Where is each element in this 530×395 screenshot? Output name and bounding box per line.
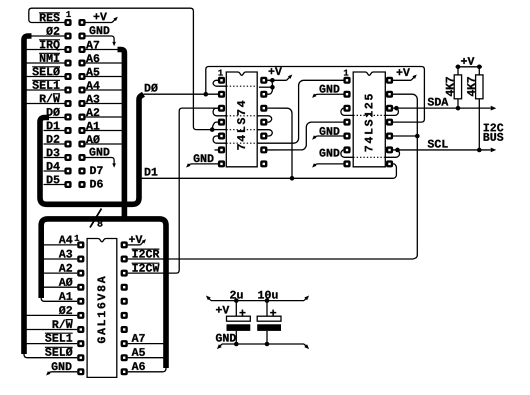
wire capacitor GND rail with arrows <box>222 343 304 345</box>
wire control bus end curve into GAL SEL0 wire <box>24 351 77 358</box>
label SEL1 with overline <box>32 81 59 89</box>
label A3 <box>86 95 99 103</box>
arrow SCL to I2C bus <box>491 148 497 153</box>
ground GND on connector <box>86 35 112 37</box>
wire D0 net: bus to U1 pin2 with junction, up and over to U2 pin4 <box>144 93 219 95</box>
wire control bus thick (phi2/IRQ/NMI/SEL/RW) left side down to GAL <box>24 36 32 354</box>
label GAL A0 <box>59 278 73 286</box>
node U1 dotted line 1 to +V vertical <box>270 85 275 90</box>
wire U2 pin1L to U1 dotted line 4 <box>257 80 343 143</box>
U2 pins <box>343 77 350 84</box>
wire R/W connector to bus <box>27 103 65 105</box>
label GAL A2 <box>59 264 72 272</box>
op U2 74LS125 buffer body <box>353 72 385 167</box>
wire R1 bottom lead to SDA <box>457 99 459 108</box>
U1 pin4R hook to dotted line <box>257 116 272 122</box>
wire GAL A5 to loop bus <box>128 357 164 359</box>
label U1 GND <box>194 154 214 162</box>
wire GAL A7 to loop bus <box>128 343 164 345</box>
ground GND3 wire to U2 pin7L <box>318 163 344 165</box>
capacitor C2 10u electrolytic <box>266 301 268 316</box>
label I2CR with overline <box>133 250 160 258</box>
wire address bus thick from A7 down to GAL loop <box>118 50 125 219</box>
node C2 top rail <box>265 298 270 303</box>
label SCL <box>428 140 448 148</box>
U2 pin3L hook to dotted line <box>341 108 353 115</box>
label A0 <box>86 135 100 143</box>
label I2C BUS <box>484 124 504 132</box>
ground GND1 wire to U2 pin2L <box>318 93 344 95</box>
wire I2CR from GAL right to 74LS125 pin2R via vertical <box>128 94 418 259</box>
label U1 pin1 number <box>218 70 222 76</box>
connector J1 pin field 2x13 <box>64 19 71 26</box>
wire +V rail for pullup resistors <box>456 66 483 68</box>
wire R2 top lead <box>478 67 480 75</box>
label GAL R/W with overline on W <box>53 320 73 329</box>
wire R2 bottom lead to SCL <box>478 99 480 150</box>
label GAL phi2 <box>59 306 72 314</box>
label A7 <box>86 41 99 49</box>
U1 internal dotted separator 1 <box>226 85 257 87</box>
U1 pin1 hook to dotted line <box>213 80 226 86</box>
wire D2 tap <box>44 143 65 145</box>
op U1 74LS74 flip-flop body <box>226 72 257 167</box>
label GAL A6 <box>132 362 145 370</box>
label GAL A5 <box>132 348 145 356</box>
wire GAL loop bus thick around GAL chip <box>41 219 166 368</box>
label D1 on bus tap wire <box>145 168 158 176</box>
label caps GND <box>216 334 236 342</box>
label GAL GND <box>52 362 72 370</box>
label D4 <box>47 162 60 170</box>
wire A5 tap <box>86 76 122 78</box>
U1 pin3 hook to dotted line <box>213 108 226 116</box>
U1 pin5 hook to dotted line <box>213 136 226 143</box>
wire A1 tap <box>86 130 122 132</box>
ground GND2 wire to U2 pin5L <box>318 135 344 137</box>
label A5 <box>86 68 99 76</box>
wire U1 pin3R (Q) down to D1 line <box>267 108 292 178</box>
wire D0 vertical over the top to 74LS125 pin4 <box>206 67 425 123</box>
label D2 <box>47 135 60 143</box>
node C2 bottom rail <box>265 342 270 347</box>
wire D3 tap <box>44 157 65 159</box>
ground GND on connector row 11 <box>86 157 112 159</box>
wire A7 connector to bus <box>86 49 120 51</box>
U2 pin6R hook to dotted line <box>385 150 399 157</box>
label R2 4K7 <box>467 77 475 96</box>
wire D1 tap from connector D1 to data bus <box>44 130 65 132</box>
power +V on connector pin 14 <box>86 22 113 24</box>
node SCL junction at pin6R hook <box>395 148 400 153</box>
label connector pin1 number <box>66 11 70 17</box>
wire GAL phi2 from control bus <box>27 314 78 316</box>
label C1 2u <box>230 291 242 299</box>
node RES junction at U1 pin4 hook <box>210 127 215 132</box>
label GAL A1 <box>59 292 72 300</box>
label R1 4K7 <box>446 77 454 96</box>
label A4 <box>86 81 100 89</box>
U1 internal dotted separator 3 <box>226 129 257 131</box>
label SDA <box>428 98 449 106</box>
label D0 <box>47 108 60 116</box>
op U3 GAL16V8A body <box>87 239 117 378</box>
wire GAL loop left end curve into A1 wire <box>41 295 77 301</box>
U1 internal dotted separator 4 <box>226 142 257 144</box>
wire data bus thick: D0 pin down, across, up to D0/D1 taps <box>40 94 144 204</box>
label A6 <box>86 54 99 62</box>
node D0 junction <box>204 92 209 97</box>
wire IRQ connector to bus <box>27 49 65 51</box>
U1 internal dotted separator 2 <box>226 115 257 117</box>
wire GAL A2 tap <box>44 272 78 274</box>
wire capacitor +V rail with arrows <box>211 300 304 302</box>
bus width marker /8 on GAL bus <box>90 209 102 228</box>
node SCL junction at R2 <box>477 148 482 153</box>
node R1 top <box>456 65 461 70</box>
wire D1 net from data bus to right <box>141 177 294 179</box>
wire A2 tap <box>86 116 122 118</box>
label D7 no connect <box>90 166 102 174</box>
U2 internal dotted separator 1 <box>353 114 385 116</box>
label NMI with overline <box>40 54 59 62</box>
U1 pins <box>218 77 225 84</box>
wire SEL0 connector to bus <box>27 76 65 78</box>
U1 pin14-pin13 tie vertical with dotted hook <box>267 80 272 94</box>
U3 pins <box>77 241 84 248</box>
label A1 <box>86 122 99 130</box>
wire GAL R/W from control bus <box>27 329 78 331</box>
wire RES net: connector pin 1 loop over top to U1 pins 4 area <box>29 8 212 129</box>
label GAL SEL1 with overline <box>45 334 72 342</box>
wire A4 tap <box>86 89 122 91</box>
label RES with overline <box>40 13 60 21</box>
wire phi2 connector <box>30 35 65 37</box>
wire GAL A0 tap <box>44 286 78 288</box>
label D6 no connect <box>90 180 103 188</box>
label U3 pin1 number <box>75 235 79 241</box>
wire GAL SEL1 from control bus <box>27 343 78 345</box>
node C1 top rail <box>234 298 239 303</box>
label GAL A3 <box>59 250 72 258</box>
label SEL0 with overline <box>32 67 59 75</box>
U2 pin3R hook to dotted line <box>385 108 398 115</box>
node C1 bottom rail <box>234 342 239 347</box>
label GAL A7 <box>132 334 145 342</box>
wire SDA from U2 pin3R to I2C bus arrow <box>393 107 491 109</box>
U2 +V power on pin 14 <box>393 79 411 81</box>
U1 pin6 stub <box>215 149 219 151</box>
wire D1 continuation to U2 pin7R hook <box>292 164 396 178</box>
resistor R1 4K7 body <box>454 75 461 99</box>
label GAL SEL0 with overline <box>45 348 72 356</box>
wire D4 tap <box>44 170 65 172</box>
wire I2CW from GAL up to U1 pin3 <box>128 108 218 273</box>
wire U1 pin6R over to U2 pin4L <box>267 122 343 150</box>
label IRQ with overline <box>40 40 60 50</box>
label A2 <box>86 108 99 116</box>
wire GAL A3 tap <box>44 258 78 260</box>
U3 +V power on pin 20 <box>128 244 141 246</box>
node R2 top <box>477 65 482 70</box>
label D5 <box>47 176 60 184</box>
wire A6 tap <box>86 62 122 64</box>
label U2 pin1 number <box>344 70 348 76</box>
label I2CW with overline <box>133 264 160 272</box>
node SDA junction at pin3R hook <box>394 106 399 111</box>
wire A0 tap <box>86 143 122 145</box>
node D1/U1 pin3R junction <box>290 176 295 181</box>
U1 pin5R hook to dotted line <box>257 130 272 136</box>
label GAL A4 <box>59 236 73 244</box>
wire U2 pin5R to I2CR vertical <box>393 135 417 137</box>
U1 +V power on pin 14 <box>267 79 286 81</box>
U2 pin6L hook to dotted line <box>341 150 353 157</box>
resistor R2 4K7 body <box>476 75 483 99</box>
label R/W with overline on W <box>40 94 60 103</box>
wire SEL1 connector to bus <box>27 89 65 91</box>
U2 internal dotted separator 2 <box>353 156 385 158</box>
wire D0 short from pin to bus corner <box>47 117 65 119</box>
wire U1 pin4 hook from RES junction <box>212 122 218 130</box>
label phi2 <box>46 27 59 35</box>
wire NMI connector to bus <box>27 62 65 64</box>
wire GAL A4 tap from loop <box>44 244 78 246</box>
label D3 <box>47 148 60 156</box>
capacitor C1 2u electrolytic <box>235 301 237 316</box>
wire D5 tap <box>44 184 65 186</box>
label D1 <box>47 122 60 130</box>
label caps +V <box>216 306 229 314</box>
node I2CR junction with U2 pin5R wire <box>415 134 420 139</box>
label D0 on bus tap wire <box>145 84 158 92</box>
arrow SDA to I2C bus <box>491 106 497 111</box>
wire A3 tap <box>86 103 122 105</box>
wire R1 top lead <box>457 67 459 75</box>
wire GAL loop right end curve into A6 wire <box>128 365 166 372</box>
wire SCL from U2 pin6R to I2C bus arrow <box>393 149 491 151</box>
U1 ground wire and symbol <box>192 163 218 165</box>
U3 ground wire and symbol <box>52 371 77 373</box>
wire RES continuation to U1 body dotted line <box>212 129 226 131</box>
node SDA junction at R1 <box>456 106 461 111</box>
label C2 10u <box>258 291 277 299</box>
